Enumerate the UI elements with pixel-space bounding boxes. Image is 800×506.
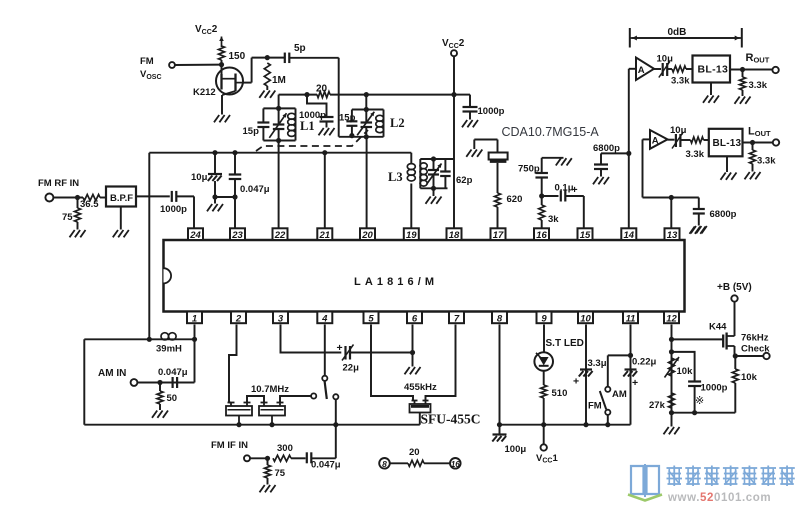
svg-text:23: 23 [231, 230, 243, 241]
svg-text:1M: 1M [272, 75, 286, 86]
svg-text:20: 20 [409, 447, 420, 458]
svg-text:FM: FM [588, 401, 602, 412]
svg-text:62p: 62p [456, 175, 473, 186]
svg-text:4: 4 [321, 313, 328, 324]
svg-text:27k: 27k [649, 400, 666, 411]
svg-text:L3: L3 [388, 170, 403, 184]
svg-text:※: ※ [695, 395, 704, 407]
svg-text:20: 20 [361, 230, 373, 241]
svg-text:8: 8 [497, 313, 503, 324]
svg-text:K212: K212 [193, 87, 216, 98]
svg-text:VCC2: VCC2 [442, 38, 465, 50]
svg-text:1: 1 [192, 313, 197, 324]
svg-text:+: + [632, 377, 638, 389]
svg-text:3k: 3k [548, 214, 559, 225]
svg-text:VOSC: VOSC [140, 69, 162, 81]
svg-text:5p: 5p [294, 43, 306, 54]
svg-text:VCC2: VCC2 [195, 24, 218, 36]
svg-text:36.5: 36.5 [80, 199, 99, 210]
svg-text:10μ: 10μ [670, 125, 687, 136]
svg-text:50: 50 [167, 393, 178, 404]
svg-text:9: 9 [541, 313, 547, 324]
svg-text:18: 18 [449, 230, 460, 241]
svg-text:BL-13: BL-13 [698, 64, 729, 76]
svg-text:16: 16 [536, 230, 547, 241]
svg-text:15: 15 [580, 230, 591, 241]
svg-text:3.3k: 3.3k [671, 76, 690, 87]
svg-text:1000p: 1000p [160, 204, 187, 215]
svg-text:3.3k: 3.3k [686, 149, 705, 160]
svg-text:1000p: 1000p [701, 383, 728, 394]
svg-text:10.7MHz: 10.7MHz [251, 384, 289, 395]
svg-text:76kHz: 76kHz [741, 333, 769, 344]
svg-text:8: 8 [382, 459, 387, 469]
svg-text:A: A [652, 135, 659, 146]
svg-text:0.1μ: 0.1μ [555, 183, 574, 194]
svg-text:0.047μ: 0.047μ [240, 184, 270, 195]
svg-text:0.047μ: 0.047μ [158, 367, 188, 378]
svg-text:0.047μ: 0.047μ [311, 460, 341, 471]
svg-text:3.3k: 3.3k [749, 80, 768, 91]
svg-text:100μ: 100μ [505, 444, 527, 455]
svg-text:BL-13: BL-13 [713, 138, 742, 149]
svg-text:5: 5 [368, 313, 374, 324]
svg-text:22μ: 22μ [343, 363, 360, 374]
svg-text:150: 150 [229, 51, 246, 62]
svg-text:19: 19 [406, 230, 417, 241]
svg-text:A: A [638, 65, 645, 76]
svg-text:6800p: 6800p [710, 209, 737, 220]
svg-text:+B (5V): +B (5V) [717, 282, 752, 293]
svg-text:www.520101.com: www.520101.com [667, 492, 771, 504]
svg-text:10μ: 10μ [191, 172, 208, 183]
svg-text:16: 16 [451, 460, 460, 469]
svg-text:Check: Check [741, 344, 770, 355]
svg-text:+: + [573, 376, 579, 388]
svg-text:300: 300 [277, 443, 293, 454]
svg-text:11: 11 [626, 313, 636, 324]
svg-text:510: 510 [552, 388, 568, 399]
svg-text:620: 620 [507, 194, 523, 205]
svg-text:10: 10 [580, 313, 591, 324]
svg-text:15p: 15p [243, 126, 260, 137]
svg-text:75: 75 [275, 468, 286, 479]
svg-text:FM IF IN: FM IF IN [211, 440, 248, 451]
svg-text:AM: AM [612, 389, 627, 400]
svg-text:10k: 10k [677, 366, 694, 377]
svg-text:75: 75 [62, 212, 73, 223]
svg-text:13: 13 [667, 230, 678, 241]
svg-text:L1: L1 [300, 119, 315, 133]
svg-text:3: 3 [278, 313, 284, 324]
svg-text:17: 17 [493, 230, 504, 241]
svg-text:0.22μ: 0.22μ [632, 357, 656, 368]
svg-text:CDA10.7MG15-A: CDA10.7MG15-A [502, 125, 600, 139]
svg-text:3.3μ: 3.3μ [588, 358, 607, 369]
svg-text:20: 20 [316, 84, 328, 95]
svg-text:21: 21 [319, 230, 331, 241]
svg-text:24: 24 [189, 230, 201, 241]
svg-text:6800p: 6800p [593, 143, 620, 154]
svg-text:455kHz: 455kHz [404, 382, 437, 393]
svg-text:SFU-455C: SFU-455C [421, 412, 481, 427]
svg-text:10μ: 10μ [657, 54, 674, 65]
svg-text:S.T LED: S.T LED [546, 338, 584, 349]
svg-text:ROUT: ROUT [746, 52, 770, 65]
svg-text:3.3k: 3.3k [757, 156, 776, 167]
svg-text:7: 7 [454, 313, 460, 324]
svg-text:FM: FM [140, 56, 154, 67]
svg-text:15p: 15p [339, 113, 356, 124]
svg-text:39mH: 39mH [156, 344, 182, 355]
svg-text:K44: K44 [709, 322, 727, 333]
svg-text:1000p: 1000p [478, 106, 505, 117]
svg-text:LA1816/M: LA1816/M [354, 276, 438, 288]
svg-text:12: 12 [666, 313, 677, 324]
svg-text:2: 2 [235, 313, 242, 324]
svg-text:0dB: 0dB [668, 27, 687, 38]
svg-text:6: 6 [412, 313, 418, 324]
svg-text:14: 14 [624, 230, 635, 241]
svg-text:750p: 750p [518, 164, 540, 175]
svg-text:22: 22 [274, 230, 286, 241]
svg-text:VCC1: VCC1 [536, 453, 558, 465]
svg-text:10k: 10k [741, 372, 758, 383]
svg-text:LOUT: LOUT [748, 126, 771, 139]
svg-text:L2: L2 [390, 116, 405, 130]
svg-text:FM RF IN: FM RF IN [38, 178, 79, 189]
svg-text:B.P.F: B.P.F [110, 193, 133, 204]
svg-text:+: + [337, 342, 343, 354]
svg-text:AM IN: AM IN [98, 368, 126, 379]
